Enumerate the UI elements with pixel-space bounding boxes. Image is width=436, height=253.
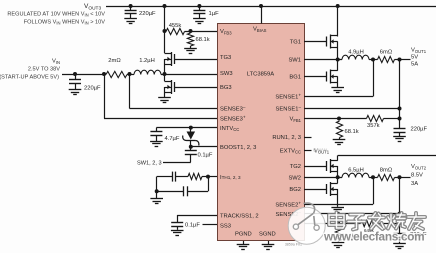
ground ch1 bottom FET (337, 86, 339, 88)
wire SENSE2+ (304, 204, 373, 206)
wire boost bottom FET source to ground (164, 93, 166, 97)
junction SENSE1+ tap (371, 58, 375, 62)
svg-text:VOUT1: VOUT1 (411, 48, 427, 54)
svg-text:VIN: VIN (52, 59, 60, 65)
capacitor 1uF VBIAS bypass (199, 6, 201, 10)
transistor M-boost-top TG3 switch (174, 54, 176, 64)
svg-text:3A: 3A (411, 181, 418, 187)
wire drain drop channel1 (337, 6, 339, 37)
svg-text:SENSE1–: SENSE1– (276, 105, 302, 113)
wire TG3 gate (174, 59, 217, 61)
wire SENSE1+ (304, 96, 373, 98)
wire ch2 bottom FET drain to SW2 (337, 177, 339, 183)
transistor M2-bottom channel2 (326, 184, 328, 194)
capacitor 0.1uF boost (190, 147, 192, 151)
svg-text:RUN1, 2, 3: RUN1, 2, 3 (272, 135, 301, 141)
svg-text:SENSE2+: SENSE2+ (275, 200, 301, 208)
resistor ITH compensation (188, 173, 202, 179)
svg-text:FOLLOWS VIN WHEN VIN > 10V: FOLLOWS VIN WHEN VIN > 10V (24, 20, 106, 26)
wire VIN (62, 74, 106, 76)
ground 68.1k channel2 (338, 241, 340, 243)
svg-text:LTC3859A: LTC3859A (247, 72, 274, 78)
junction top rail / VFB3 divider column (163, 4, 167, 8)
svg-text:TG1: TG1 (290, 40, 301, 46)
ground 68.1k channel1 (339, 138, 341, 140)
node VOUT2 labels (411, 164, 427, 187)
wire BG1 gate (304, 76, 327, 78)
svg-text:www.: www. (312, 147, 329, 154)
chip right pin labels (272, 40, 301, 218)
junction top rail / C-220uF (129, 4, 133, 8)
svg-text:2mΩ: 2mΩ (108, 58, 121, 64)
junction VFB1 divider (337, 117, 341, 121)
svg-text:8.5V: 8.5V (411, 173, 423, 179)
wire boost top FET source to SW node (164, 65, 166, 75)
wire ITH pin (208, 176, 217, 178)
capacitor 220uF channel2 output (399, 230, 401, 234)
wire RUN1,2,3 stub (304, 137, 312, 139)
junction SW2 node (336, 175, 340, 179)
wire VFB2 (304, 223, 338, 225)
svg-text:VOUT2: VOUT2 (411, 164, 427, 170)
svg-text:EXTVCC: EXTVCC (280, 148, 301, 154)
wire C2 right to ITH pin (208, 177, 210, 192)
svg-text:68.1k: 68.1k (196, 37, 210, 43)
svg-text:220µF: 220µF (84, 86, 101, 92)
svg-text:4.9µH: 4.9µH (348, 50, 364, 56)
svg-text:6.5µH: 6.5µH (348, 167, 364, 173)
junction INTVCC / boost diode (189, 126, 193, 130)
wire TRACK/SS1,2 (177, 215, 217, 217)
svg-text:SW2: SW2 (288, 175, 301, 181)
svg-text:220µF: 220µF (139, 11, 156, 17)
wire BG2 gate (304, 189, 327, 191)
junction SW1 node (336, 58, 340, 62)
svg-text:VFB1: VFB1 (289, 117, 301, 123)
junction VOUT1 node (398, 58, 402, 62)
wire BOOST pins (191, 146, 217, 148)
junction BOOST pin node (189, 145, 193, 149)
wire TG1 gate (304, 41, 327, 43)
wire VOUT1 column (399, 60, 401, 127)
capacitor ITH compensation C1 (168, 176, 172, 178)
svg-text:SW1, 2, 3: SW1, 2, 3 (137, 161, 162, 167)
resistor 2mohm sense boost (102, 72, 106, 76)
wire SENSE1- (304, 108, 400, 110)
node VOUT1 labels (411, 48, 427, 68)
wire VOUT1 rail feeding channel2 (338, 155, 436, 157)
wire ch1 top FET source to SW1 (337, 47, 339, 60)
svg-text:5V: 5V (411, 55, 418, 61)
svg-text:TRACK/SS1, 2: TRACK/SS1, 2 (220, 213, 259, 219)
resistor 68.1k channel2 divider (335, 226, 341, 242)
ground SGND (268, 241, 270, 244)
wire VOUT3 top rail (106, 6, 436, 8)
wire SW1 (304, 59, 342, 61)
resistor 649k channel2 divider (338, 223, 361, 225)
wire VOUT3 down to boost FET drain (164, 6, 166, 53)
junction 455k left (163, 29, 167, 33)
junction VFB2 divider (336, 221, 340, 225)
resistor 357k channel1 divider (339, 118, 367, 120)
resistor 6mohm sense channel1 (378, 56, 395, 62)
svg-text:4.7µF: 4.7µF (165, 136, 180, 142)
svg-text:455k: 455k (169, 23, 182, 29)
svg-text:INTVCC: INTVCC (220, 126, 239, 132)
svg-text:SENSE1+: SENSE1+ (275, 93, 301, 101)
capacitor 4.7uF INTVCC (156, 128, 158, 132)
wire ch2 top FET source to SW2 (337, 172, 339, 178)
wire INTVCC (156, 127, 217, 129)
svg-text:220µF: 220µF (411, 127, 428, 133)
transistor M1-top channel1 (326, 37, 328, 47)
svg-text:BG1: BG1 (289, 75, 301, 81)
wire VBIAS drop (261, 6, 263, 24)
resistor 68.1k boost divider (187, 33, 193, 46)
capacitor 0.1uF soft-start (177, 220, 179, 223)
wire SW2 (304, 177, 342, 179)
svg-text:0.1µF: 0.1µF (185, 223, 200, 229)
capacitor 220uF output of boost (130, 6, 132, 10)
wire SENSE3- from 2mohm right end (129, 74, 131, 109)
wire to left rail of ITH network (157, 176, 168, 178)
svg-text:SS3: SS3 (220, 223, 231, 229)
wire SS3 stub (203, 224, 218, 226)
svg-text:0.1µF: 0.1µF (198, 153, 213, 159)
svg-text:SW3: SW3 (220, 71, 233, 77)
wire BG3 gate (174, 87, 217, 89)
ground ITH network (156, 191, 158, 198)
svg-text:PGND: PGND (235, 231, 252, 237)
svg-text:1µF: 1µF (209, 11, 220, 17)
ground below 68.1k (190, 46, 192, 48)
svg-text:TG3: TG3 (220, 55, 231, 61)
svg-text:www.elecfans.com: www.elecfans.com (323, 230, 424, 244)
capacitor 220uF channel1 output (399, 126, 401, 129)
wire to SW3 node (127, 74, 134, 76)
junction VIN / input cap (73, 72, 77, 76)
transistor M1-bottom channel1 (326, 72, 328, 82)
junction VFB3 node (189, 29, 193, 33)
capacitor 220uF input (75, 74, 77, 80)
ground boost bottom FET (164, 96, 166, 98)
svg-text:5A: 5A (411, 62, 418, 68)
resistor 455k (165, 31, 167, 33)
watermark elecfans logo circle (288, 203, 325, 244)
ground PGND (243, 241, 245, 244)
wire ch1 bottom FET source to ground (337, 82, 339, 86)
svg-text:2.5V TO 38V: 2.5V TO 38V (28, 67, 60, 73)
transistor M-boost-bottom BG3 switch (174, 82, 176, 92)
inductor 1.2uH boost (134, 70, 161, 74)
wire VFB1 (304, 118, 339, 120)
ground ch2 bottom FET (337, 205, 339, 208)
wire ch1 bottom FET drain to SW1 (337, 60, 339, 71)
junction top rail / C-1uF (197, 4, 201, 8)
wire SENSE3+ from 2mohm left end (104, 74, 106, 119)
note text regulated at 10V (7, 12, 105, 26)
op-amp U1 LTC3859A controller IC body (218, 24, 305, 241)
wire boost bottom FET drain to SW node (164, 74, 166, 81)
junction top rail / channel1 drain (336, 4, 340, 8)
junction SW3 node (163, 72, 167, 76)
resistor 68.1k channel1 divider (336, 121, 342, 138)
wire TG2 gate (304, 166, 327, 168)
svg-text:BG3: BG3 (220, 85, 232, 91)
chip left pin labels (220, 29, 259, 229)
inductor 6.5uH channel2 (342, 173, 369, 177)
resistor 8mohm sense channel2 (378, 174, 395, 180)
svg-text:68.1k: 68.1k (345, 129, 359, 135)
wire EXTVCC stub to VOUT1 (304, 150, 312, 152)
junction SENSE2+ tap (371, 175, 375, 179)
svg-text:1.2µH: 1.2µH (139, 58, 155, 64)
svg-text:TG2: TG2 (290, 164, 301, 170)
junction VOUT2 node (398, 175, 402, 179)
svg-text:(START-UP ABOVE 5V): (START-UP ABOVE 5V) (0, 75, 59, 81)
diode DB boost (190, 128, 192, 132)
svg-text:SENSE3+: SENSE3+ (220, 114, 246, 122)
watermark chinese characters (329, 213, 425, 230)
wire ch2 bottom FET source to ground (337, 195, 339, 207)
wire VOUT2 column (399, 177, 401, 230)
svg-text:VFB3: VFB3 (220, 29, 232, 35)
node VIN label (0, 59, 60, 81)
svg-text:SW1: SW1 (288, 58, 301, 64)
transistor M2-top channel2 (326, 161, 328, 171)
junction top rail / VBIAS (259, 4, 263, 8)
inductor 4.5uH channel1 (342, 55, 369, 59)
wire VFB3 to chip (185, 31, 218, 33)
wire to SW1,2,3 label (190, 158, 192, 162)
wire SENSE2- (304, 213, 400, 215)
svg-text:BG2: BG2 (289, 187, 301, 193)
svg-text:SENSE3–: SENSE3– (220, 104, 246, 112)
svg-text:BOOST1, 2, 3: BOOST1, 2, 3 (220, 145, 256, 151)
capacitor ITH C2 (157, 191, 184, 193)
svg-text:357k: 357k (367, 123, 380, 129)
svg-text:REGULATED AT 10V WHEN VIN < 10: REGULATED AT 10V WHEN VIN < 10V (7, 12, 105, 18)
svg-text:VBIAS: VBIAS (253, 27, 267, 33)
svg-text:6mΩ: 6mΩ (380, 50, 393, 56)
svg-text:SGND: SGND (259, 231, 276, 237)
svg-text:8mΩ: 8mΩ (380, 167, 393, 173)
junction ITH ground rail (155, 189, 159, 193)
